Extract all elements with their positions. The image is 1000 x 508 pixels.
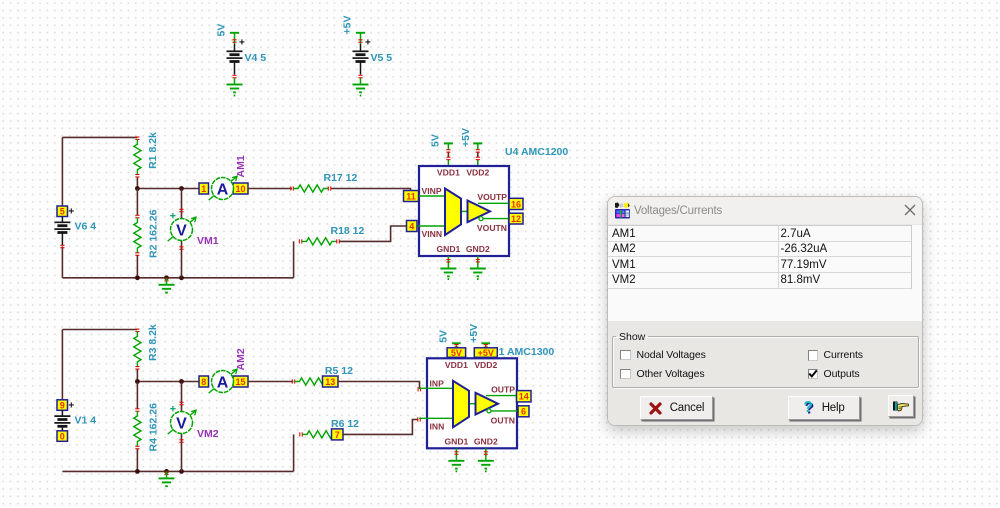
ground c2 (135, 469, 184, 486)
wire R18 to U4 VINN (340, 226, 407, 241)
svg-text:V5 5: V5 5 (371, 52, 393, 64)
checkbox Outputs (checked) (808, 369, 819, 380)
wire top-left loop c2 (62, 330, 137, 400)
groupbox Show (612, 331, 919, 389)
pin box 12 (509, 213, 523, 224)
amp stage 1 U1 (453, 381, 469, 428)
svg-text:A: A (217, 181, 229, 198)
svg-text:R17 12: R17 12 (324, 172, 358, 184)
label 5V U1 (437, 330, 449, 343)
svg-text:R3 8.2k: R3 8.2k (147, 324, 159, 361)
svg-text:AM1: AM1 (235, 155, 247, 177)
wire R5 to U1 INP (338, 382, 421, 392)
svg-text:1: 1 (201, 184, 206, 194)
ground c1 (135, 275, 184, 292)
dialog title bar (608, 197, 922, 224)
label +5V U4 (460, 128, 472, 147)
svg-text:5V: 5V (429, 134, 441, 147)
svg-text:R4 162.26: R4 162.26 (148, 403, 160, 452)
ground stubs U1 (448, 448, 493, 471)
wire R6 to U1 INN (343, 417, 420, 434)
svg-text:8: 8 (201, 377, 206, 387)
svg-text:U1 AMC1300: U1 AMC1300 (491, 346, 554, 358)
resistor R4_162.26 (134, 382, 160, 472)
amp stage 2 U4 (468, 201, 491, 223)
resistor R3_8.2k (134, 324, 159, 381)
svg-text:VOUTN: VOUTN (477, 223, 507, 233)
amp stage 1 U4 (445, 189, 461, 236)
svg-text:5V: 5V (451, 348, 462, 358)
svg-text:+: + (68, 207, 74, 218)
svg-text:12: 12 (511, 214, 521, 224)
ammeter AM2 (199, 348, 248, 393)
svg-text:VOUTP: VOUTP (477, 192, 507, 202)
svg-text:VDD2: VDD2 (474, 360, 497, 370)
wire top-left loop c1 (62, 137, 137, 206)
pin box 13 (323, 376, 339, 387)
svg-text:V: V (176, 222, 187, 239)
svg-text:16: 16 (511, 199, 521, 209)
svg-text:V1 4: V1 4 (75, 414, 97, 426)
checkbox Other Voltages (620, 369, 631, 380)
svg-text:5V: 5V (437, 330, 449, 343)
wire battery-bottom to rail c2 (0, 0, 1, 1)
svg-text:+: + (239, 38, 245, 49)
svg-text:R1 8.2k: R1 8.2k (147, 132, 159, 169)
svg-text:13: 13 (325, 377, 335, 387)
output nets U1 (469, 396, 525, 411)
svg-text:V4 5: V4 5 (245, 52, 267, 64)
input nets U4 (411, 196, 445, 226)
svg-text:11: 11 (406, 191, 416, 201)
svg-text:INP: INP (430, 378, 445, 388)
pin labels U4 (422, 168, 508, 255)
svg-text:R5 12: R5 12 (325, 365, 353, 377)
label 5V U4 (429, 134, 441, 147)
svg-text:GND1: GND1 (444, 436, 468, 446)
svg-text:9: 9 (60, 400, 65, 410)
resistor R1_8.2k (134, 132, 159, 189)
svg-text:5: 5 (60, 207, 65, 217)
ammeter AM1 (199, 155, 248, 200)
svg-text:VINN: VINN (422, 229, 443, 239)
button apply (pointing hand) (888, 395, 914, 417)
svg-text:AM2: AM2 (235, 348, 247, 370)
svg-text:10: 10 (235, 184, 245, 194)
svg-text:U4 AMC1200: U4 AMC1200 (505, 146, 568, 158)
svg-text:VDD1: VDD1 (437, 168, 460, 178)
svg-text:A: A (217, 374, 229, 391)
svg-text:V6 4: V6 4 (75, 221, 97, 233)
op-amp U1 body (427, 358, 517, 448)
svg-text:GND2: GND2 (466, 244, 490, 254)
ground under V5 (353, 85, 369, 96)
wire mid rail c1 (135, 186, 199, 191)
svg-text:0: 0 (60, 431, 65, 441)
svg-text:GND1: GND1 (436, 244, 460, 254)
svg-text:VM1: VM1 (197, 235, 219, 247)
dialog gray panel (608, 321, 922, 427)
pin box 7 (332, 429, 344, 440)
svg-text:14: 14 (519, 392, 529, 402)
svg-text:6: 6 (521, 407, 526, 417)
svg-text:VINP: VINP (422, 186, 442, 196)
wire bottom rail c1 (62, 241, 293, 277)
svg-text:VDD2: VDD2 (466, 168, 489, 178)
pin box 4 (407, 221, 418, 232)
label U4 AMC1200 (505, 146, 568, 158)
svg-text:R6 12: R6 12 (331, 418, 359, 430)
wire mid rail c2 (135, 379, 199, 384)
dialog results table (608, 225, 922, 321)
wire ammeter to R5_12 c2 (248, 381, 293, 383)
svg-text:OUTP: OUTP (491, 384, 515, 394)
svg-text:VDD1: VDD1 (445, 360, 468, 370)
button Cancel (640, 396, 713, 420)
label U1 AMC1300 (491, 346, 554, 358)
svg-text:GND2: GND2 (474, 436, 498, 446)
pin box 16 (509, 198, 523, 209)
pin box 6 (518, 406, 529, 417)
wire R17 to U4 VINP (331, 189, 411, 196)
resistor R5_12 (292, 365, 353, 385)
resistor R2_162.26 (134, 189, 160, 278)
resistor R17_12 (291, 172, 358, 192)
svg-text:+5V: +5V (460, 128, 472, 147)
wire bottom rail c2 (62, 434, 293, 471)
pin box 14 (517, 391, 532, 402)
ground under V4 (227, 85, 243, 96)
jumper box 5V (447, 348, 466, 358)
svg-text:VM2: VM2 (197, 428, 219, 440)
svg-text:+5V: +5V (478, 348, 494, 358)
op-amp U4 body (419, 166, 509, 256)
jumper box +5V (474, 348, 497, 358)
svg-text:+5V: +5V (342, 16, 354, 35)
checkbox Currents (808, 350, 819, 361)
power stubs U4 (444, 143, 482, 166)
wire battery-bottom to rail c1 (61, 247, 63, 278)
voltmeter VM2 (168, 382, 219, 472)
output nets U4 (461, 203, 517, 218)
amp stage 2 U1 (476, 393, 499, 415)
svg-text:R18 12: R18 12 (331, 225, 365, 237)
battery V1 (54, 400, 96, 442)
input nets U1 (419, 388, 453, 418)
svg-text:+: + (68, 400, 74, 411)
wire ammeter to R17_12 c1 (248, 188, 292, 190)
svg-text:R2 162.26: R2 162.26 (148, 209, 160, 258)
power stubs U1 (452, 343, 490, 348)
svg-text:4: 4 (409, 221, 414, 231)
pin box 11 (404, 191, 419, 202)
ground stubs U4 (440, 256, 485, 279)
svg-text:+5V: +5V (468, 324, 480, 343)
voltmeter VM1 (168, 189, 219, 278)
voltage source V4 (216, 24, 267, 85)
resistor R18_12 (299, 225, 364, 245)
checkbox Nodal Voltages (620, 350, 631, 361)
svg-text:INN: INN (430, 421, 445, 431)
svg-text:OUTN: OUTN (491, 415, 515, 425)
svg-text:V: V (176, 415, 187, 432)
svg-text:+: + (365, 38, 371, 49)
resistor R6_12 (300, 418, 359, 438)
label +5V U1 (468, 324, 480, 343)
svg-text:15: 15 (235, 377, 245, 387)
svg-text:7: 7 (335, 430, 340, 440)
dialog Voltages/Currents (607, 196, 923, 426)
battery V6 (54, 206, 96, 248)
voltage source V5 (342, 16, 393, 85)
svg-text:5V: 5V (216, 24, 228, 37)
pin labels U1 (430, 360, 516, 447)
button Help (788, 396, 860, 420)
dialog icon (614, 202, 631, 219)
